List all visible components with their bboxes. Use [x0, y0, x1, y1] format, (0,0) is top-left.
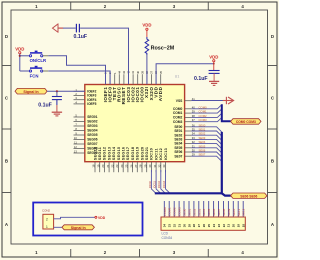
- svg-text:19: 19: [237, 224, 241, 228]
- svg-text:VDD: VDD: [15, 46, 24, 51]
- svg-text:22: 22: [222, 224, 226, 228]
- svg-text:26: 26: [202, 224, 206, 228]
- svg-text:Signal In: Signal In: [23, 90, 39, 94]
- wire: arrow to capacitor C1: [63, 27, 76, 29]
- IC U1 left pins: [74, 91, 85, 153]
- IC U1 bottom pins: [95, 162, 166, 173]
- SEG vertical bus: [222, 132, 231, 196]
- svg-text:35: 35: [159, 70, 163, 74]
- power VDD (Rosc): [142, 22, 151, 37]
- svg-text:SEG21: SEG21: [145, 147, 149, 161]
- IC U1 bottom pin numbers: [92, 164, 167, 168]
- svg-text:IOC13: IOC13: [164, 148, 168, 160]
- net labels SE00-SE07: [199, 123, 206, 156]
- IC U1 top pin names: [103, 86, 163, 104]
- svg-text:SEG18: SEG18: [131, 147, 135, 161]
- svg-text:SEG03: SEG03: [87, 124, 98, 128]
- resistor Rosc-2M value label: [151, 46, 175, 52]
- svg-text:SEG16: SEG16: [122, 147, 126, 161]
- connector CON34 pin numbers (rotated): [163, 224, 246, 228]
- power VDD (CON2): [95, 216, 106, 220]
- svg-text:25: 25: [125, 164, 129, 168]
- net tag COM0..COM3: [231, 119, 261, 125]
- junction node (switch rail): [19, 55, 21, 57]
- svg-text:24: 24: [212, 224, 216, 228]
- svg-text:VDD: VDD: [209, 55, 218, 60]
- svg-text:39: 39: [140, 70, 144, 74]
- svg-text:18: 18: [92, 164, 96, 168]
- wire: Signal In to IC IOEF2 pin: [47, 90, 85, 92]
- svg-text:0.1uF: 0.1uF: [194, 76, 208, 82]
- net labels COM0-COM3: [199, 105, 208, 122]
- border ticks top/bottom: [71, 2, 209, 257]
- svg-text:D: D: [5, 34, 8, 39]
- svg-text:COM2: COM2: [173, 207, 177, 216]
- svg-text:IOC12: IOC12: [158, 180, 161, 188]
- junction node (VDD net): [213, 63, 215, 65]
- svg-text:1: 1: [46, 225, 48, 229]
- svg-text:SEG19: SEG19: [136, 147, 140, 161]
- svg-text:IOC10: IOC10: [150, 148, 154, 160]
- bus stem to COM tag: [222, 104, 231, 121]
- wires: SEG00-SEG07 to bus: [191, 127, 221, 162]
- svg-text:COM0: COM0: [163, 207, 167, 216]
- svg-text:COM1: COM1: [168, 207, 172, 216]
- svg-text:33: 33: [168, 224, 172, 228]
- svg-text:SE04: SE04: [202, 208, 206, 216]
- svg-text:SE11: SE11: [237, 209, 241, 216]
- svg-text:SEG17: SEG17: [126, 147, 130, 161]
- svg-text:32: 32: [158, 164, 162, 168]
- svg-text:SEG14: SEG14: [112, 146, 116, 160]
- svg-text:23: 23: [115, 164, 119, 168]
- connector CON2 body: [43, 214, 54, 229]
- net labels bottom wired pins (rotated): [149, 180, 166, 188]
- svg-text:SEG07: SEG07: [87, 142, 98, 146]
- net tag Signal In (CON2): [62, 225, 95, 230]
- IC U1 right pin numbers: [192, 97, 195, 157]
- svg-text:40: 40: [136, 70, 140, 74]
- net tag Signal In (left): [15, 88, 47, 94]
- capacitor C2 value 0.1uF: [194, 76, 208, 82]
- svg-text:Signal In: Signal In: [71, 226, 86, 230]
- svg-text:VDD: VDD: [142, 22, 151, 27]
- svg-text:SEG05: SEG05: [87, 133, 98, 137]
- svg-text:IOC10: IOC10: [149, 180, 152, 188]
- svg-text:31: 31: [153, 164, 157, 168]
- resistor Rosc-2M: [145, 37, 149, 55]
- svg-text:27: 27: [134, 164, 138, 168]
- junction node (signal net): [56, 90, 58, 92]
- svg-text:Rosc–2M: Rosc–2M: [151, 46, 175, 52]
- svg-text:2: 2: [46, 217, 48, 221]
- svg-text:37: 37: [150, 70, 154, 74]
- svg-text:23: 23: [217, 224, 221, 228]
- svg-text:30: 30: [148, 164, 152, 168]
- switch S1 ON/CLR: [29, 51, 42, 57]
- svg-text:31: 31: [177, 224, 181, 228]
- svg-text:19: 19: [96, 164, 100, 168]
- svg-text:B: B: [5, 159, 8, 164]
- svg-text:SEG11: SEG11: [98, 147, 102, 160]
- wire: rail to switch S1: [20, 55, 30, 57]
- svg-text:33: 33: [162, 164, 166, 168]
- wire: VDD rail down to switches: [19, 54, 21, 71]
- svg-text:SEG02: SEG02: [87, 120, 98, 124]
- wires: IOC10-IOC13 bottom pins to bus: [151, 170, 170, 193]
- switch S2 FCN: [29, 67, 42, 73]
- svg-text:COM3: COM3: [199, 118, 208, 122]
- net labels CON34 pins (rotated): [163, 207, 246, 216]
- capacitor C2 plates: [209, 71, 220, 74]
- svg-text:COM3: COM3: [178, 207, 182, 216]
- svg-text:21: 21: [227, 224, 231, 228]
- svg-text:B: B: [271, 159, 274, 164]
- svg-text:SE01: SE01: [188, 208, 192, 216]
- wire: VDD pin of IC to bypass cap node: [156, 64, 214, 84]
- wire: junction to capacitor C3: [56, 91, 58, 96]
- bottom horizontal bus: [155, 192, 222, 194]
- svg-text:SE06 SE06: SE06 SE06: [240, 194, 257, 198]
- svg-text:SE09: SE09: [227, 208, 231, 216]
- svg-text:U1: U1: [175, 75, 180, 79]
- svg-text:SE05: SE05: [207, 208, 211, 216]
- svg-text:SEG04: SEG04: [87, 129, 98, 133]
- svg-text:IOC11: IOC11: [154, 181, 157, 189]
- highlight box (blue): [33, 203, 142, 236]
- connector CON2 label: [42, 208, 50, 212]
- svg-text:25: 25: [207, 224, 211, 228]
- svg-text:IOEF5: IOEF5: [87, 102, 96, 106]
- capacitor C3 value 0.1uF: [38, 103, 52, 109]
- svg-text:SE02: SE02: [192, 208, 196, 216]
- svg-text:VDD: VDD: [98, 216, 106, 220]
- wire: capacitor C1 to IC pin (RESET net): [80, 28, 128, 84]
- IC U1 left pin numbers: [74, 88, 77, 154]
- wire: S1 to IC IOEF1 pin: [43, 55, 48, 57]
- svg-text:34: 34: [163, 224, 167, 228]
- svg-text:20: 20: [101, 164, 105, 168]
- svg-text:0.1uF: 0.1uF: [74, 34, 88, 40]
- ground (top right): [209, 81, 219, 85]
- IC U1 reference designator: [175, 75, 180, 79]
- IC U1 right pins: [185, 101, 192, 157]
- svg-text:41: 41: [131, 70, 135, 74]
- svg-text:SE12: SE12: [242, 208, 246, 216]
- svg-text:18: 18: [242, 224, 246, 228]
- svg-text:SEG01: SEG01: [87, 115, 98, 119]
- ground (signal): [52, 112, 62, 116]
- wire: Rosc to IC ROSC pin: [146, 55, 148, 84]
- wire: cap C2 to ground: [213, 73, 215, 81]
- wires: COM0-COM3 to bus: [191, 105, 221, 122]
- svg-text:SEG20: SEG20: [140, 147, 144, 161]
- svg-text:IOC13: IOC13: [163, 180, 166, 188]
- svg-text:SEG13: SEG13: [107, 147, 111, 161]
- svg-text:IOC11: IOC11: [154, 148, 158, 160]
- svg-text:CON2: CON2: [42, 208, 50, 212]
- svg-text:SE03: SE03: [197, 208, 201, 216]
- IC U1 bottom pin names: [93, 146, 168, 160]
- off-page connector arrow VSS (right): [223, 97, 234, 104]
- svg-text:SE10: SE10: [232, 208, 236, 216]
- border ticks left/right: [2, 66, 277, 193]
- svg-text:ON/CLR: ON/CLR: [30, 58, 47, 63]
- wire: VSS pin 41: [191, 100, 226, 102]
- power VDD (top right): [209, 55, 218, 71]
- net tag SE06 SE06: [231, 193, 267, 198]
- svg-text:29: 29: [187, 224, 191, 228]
- IC U1 top pins: [106, 74, 161, 84]
- svg-text:SE07: SE07: [199, 153, 206, 157]
- svg-text:D: D: [271, 34, 274, 39]
- svg-text:CON34: CON34: [162, 236, 173, 240]
- svg-text:SEG06: SEG06: [87, 138, 98, 142]
- connector CON34 designator LCD: [162, 232, 173, 240]
- svg-text:22: 22: [111, 164, 115, 168]
- wire: CON2 pin2 to VDD: [54, 217, 95, 219]
- svg-text:SE07: SE07: [174, 154, 182, 158]
- svg-text:SE00: SE00: [183, 208, 187, 216]
- svg-text:COM3: COM3: [173, 120, 183, 124]
- svg-text:0.1uF: 0.1uF: [38, 103, 52, 109]
- border frame inner: [11, 10, 268, 244]
- svg-text:27: 27: [197, 224, 201, 228]
- wires: CON34 pin stubs: [164, 201, 243, 217]
- svg-text:20: 20: [232, 224, 236, 228]
- svg-text:21: 21: [106, 164, 110, 168]
- IC U1 right pin names: [173, 99, 183, 159]
- IC U1 top pin numbers: [104, 70, 163, 74]
- capacitor C1 plates: [76, 24, 79, 33]
- svg-text:COM0 COM3: COM0 COM3: [236, 120, 256, 124]
- svg-text:IOC12: IOC12: [159, 148, 163, 160]
- svg-text:29: 29: [143, 164, 147, 168]
- op IC U1 body: [85, 85, 185, 162]
- svg-text:24: 24: [120, 164, 124, 168]
- capacitor C3 plates: [52, 97, 62, 100]
- svg-text:28: 28: [192, 224, 196, 228]
- IC U1 left pin names: [87, 89, 98, 155]
- svg-text:SEG10: SEG10: [93, 147, 97, 161]
- wire: S2 to IC IOEF0 pin: [43, 70, 48, 72]
- svg-text:28: 28: [139, 164, 143, 168]
- connector CON34 body: [161, 217, 245, 230]
- capacitor C1 value 0.1uF: [74, 34, 88, 40]
- wire: rail to switch S2: [20, 70, 30, 72]
- svg-text:SE06: SE06: [212, 208, 216, 216]
- svg-text:43: 43: [122, 70, 126, 74]
- svg-text:30: 30: [182, 224, 186, 228]
- svg-text:26: 26: [129, 164, 133, 168]
- svg-text:44: 44: [117, 70, 121, 74]
- svg-text:VSS: VSS: [176, 99, 183, 103]
- power VDD (switches): [15, 46, 24, 53]
- svg-text:AVDD: AVDD: [158, 86, 163, 101]
- svg-text:SE08: SE08: [222, 208, 226, 216]
- wire: cap C3 to ground: [56, 100, 58, 112]
- svg-text:SEG12: SEG12: [103, 147, 107, 161]
- svg-text:SEG15: SEG15: [117, 147, 121, 161]
- svg-text:FCN: FCN: [30, 74, 39, 79]
- svg-text:32: 32: [173, 224, 177, 228]
- wire: CON2 pin1 to Signal In tag: [54, 226, 62, 228]
- off-page connector arrow (left): [53, 23, 64, 32]
- svg-text:SE07: SE07: [217, 208, 221, 216]
